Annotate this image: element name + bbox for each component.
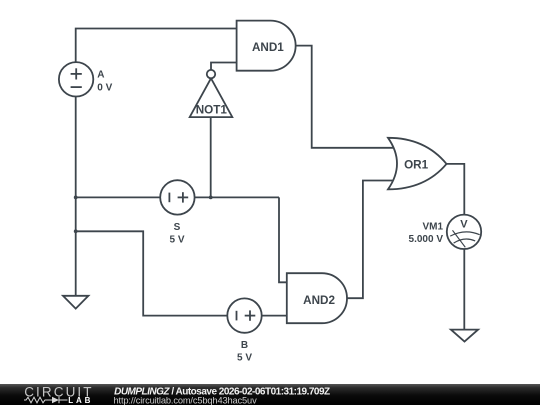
footer logo waveform — [24, 397, 68, 403]
wire junction to voltage source S left terminal — [76, 196, 161, 198]
svg-text:B: B — [241, 340, 248, 351]
wire S net down to AND2 input 1 — [279, 197, 287, 282]
junction at A / S net — [74, 196, 78, 200]
footer bar — [0, 384, 540, 405]
junction at S net / B branch — [74, 229, 78, 233]
ground (right) — [451, 330, 478, 342]
wire source A bottom down to ground — [75, 97, 77, 296]
voltage source A — [59, 62, 93, 96]
AND gate AND1 — [237, 21, 296, 71]
svg-text:AND1: AND1 — [252, 41, 284, 54]
svg-text:LAB: LAB — [68, 396, 93, 405]
ground (left) — [63, 296, 88, 309]
wire net A: source A top to AND1 input 1 — [76, 29, 237, 62]
svg-text:A: A — [97, 70, 104, 81]
wire NOT1 input from S net junction — [210, 117, 212, 197]
wire voltage source S right terminal to corner — [195, 196, 279, 198]
junction at S output / NOT1 input — [209, 196, 213, 200]
voltage source B — [227, 298, 261, 332]
svg-text:VM1: VM1 — [422, 221, 443, 232]
wire voltage source B right terminal to AND2 input 2 — [262, 315, 287, 317]
OR gate OR1 — [388, 138, 447, 190]
wire NOT1 output to AND1 input 2 — [211, 63, 237, 70]
wire OR1 output to voltmeter VM1 top — [447, 164, 465, 215]
wire AND1 output to OR1 input 1 — [296, 46, 394, 148]
svg-text:5.000 V: 5.000 V — [409, 234, 444, 245]
svg-text:5 V: 5 V — [237, 352, 252, 363]
svg-text:http://circuitlab.com/c5bqh43h: http://circuitlab.com/c5bqh43hac5uv — [114, 395, 258, 405]
svg-text:AND2: AND2 — [303, 294, 335, 307]
voltmeter VM1 — [447, 215, 481, 249]
voltage source S — [160, 180, 194, 214]
AND gate AND2 — [287, 273, 347, 323]
wire voltmeter VM1 bottom to ground — [463, 249, 465, 330]
svg-text:OR1: OR1 — [404, 158, 429, 171]
wire junction to voltage source B left terminal — [76, 231, 228, 315]
inverter NOT1 — [190, 70, 233, 117]
svg-text:0 V: 0 V — [97, 83, 112, 94]
wire AND2 output to OR1 input 2 — [347, 181, 394, 299]
svg-text:V: V — [460, 219, 468, 231]
svg-text:5 V: 5 V — [169, 234, 184, 245]
svg-text:S: S — [174, 222, 181, 233]
svg-text:NOT1: NOT1 — [196, 103, 228, 116]
